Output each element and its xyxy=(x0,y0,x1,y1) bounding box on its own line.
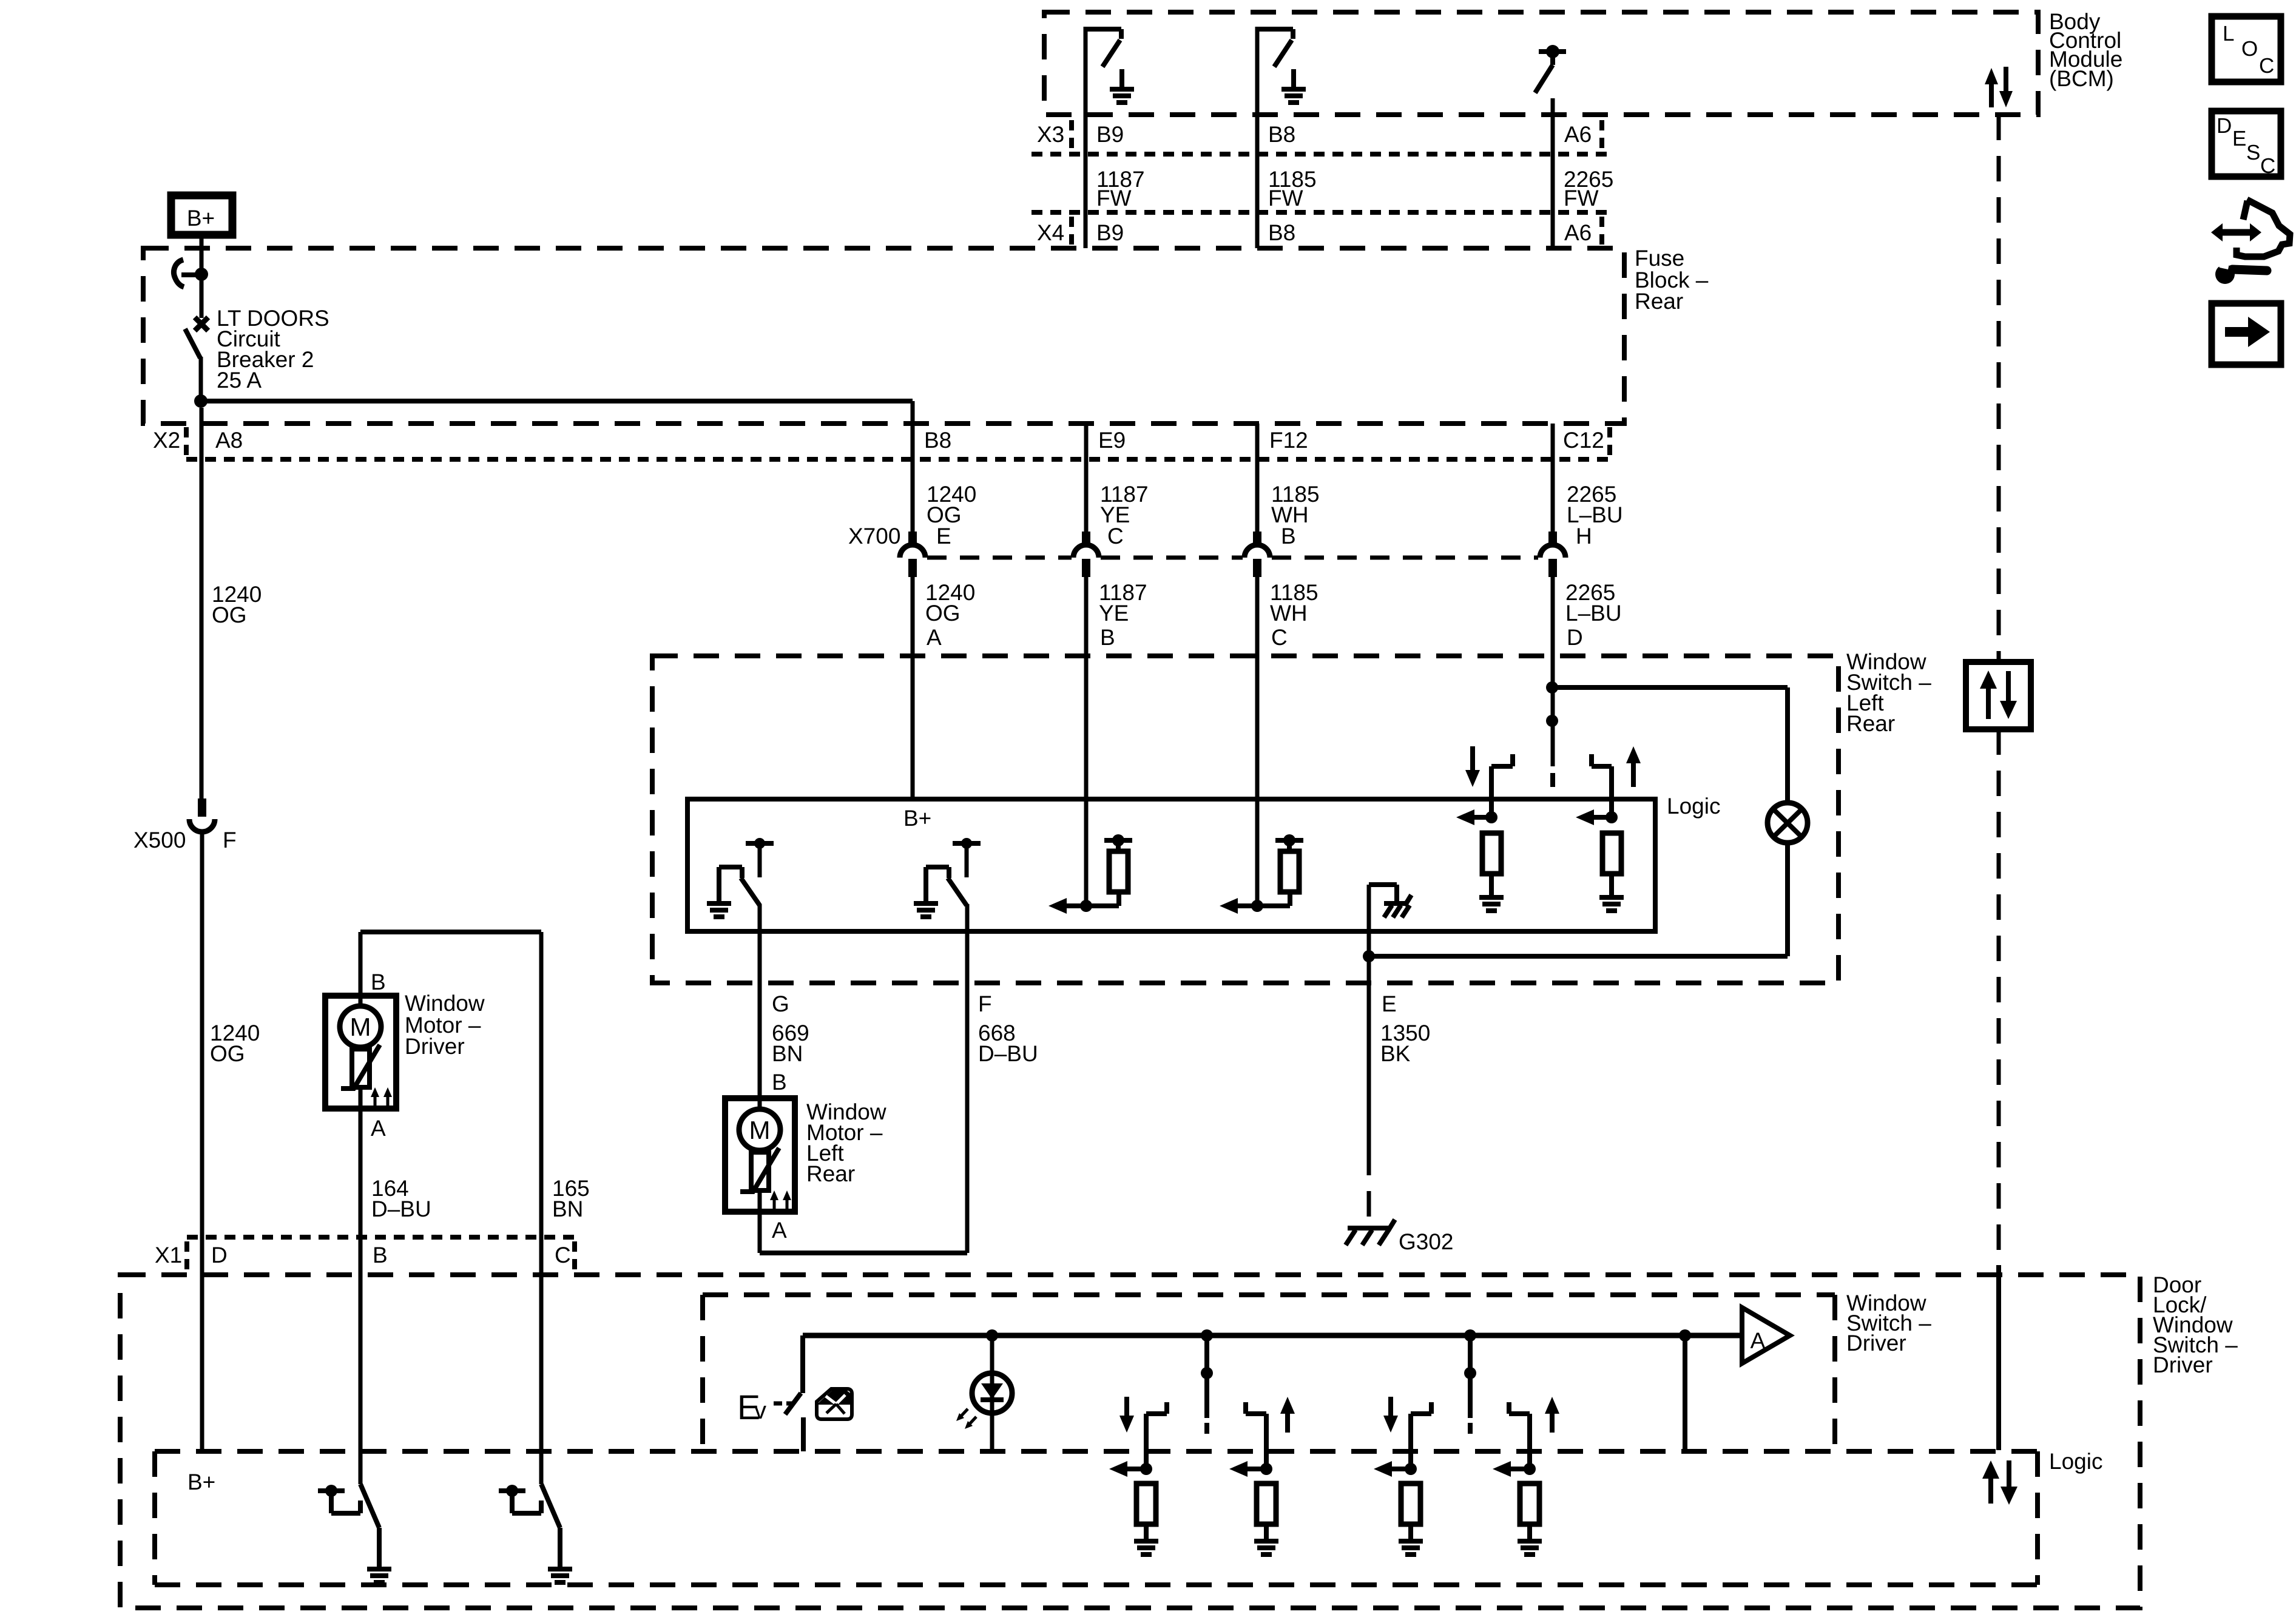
svg-text:X3: X3 xyxy=(1037,122,1064,147)
svg-text:Driver: Driver xyxy=(405,1034,465,1059)
svg-text:C12: C12 xyxy=(1563,428,1604,453)
svg-text:X1: X1 xyxy=(155,1243,182,1268)
svg-text:FW: FW xyxy=(1096,186,1132,211)
svg-text:B+: B+ xyxy=(903,806,931,831)
svg-text:FW: FW xyxy=(1564,186,1599,211)
svg-text:WH: WH xyxy=(1270,601,1308,626)
svg-text:A: A xyxy=(772,1218,787,1243)
svg-text:A: A xyxy=(927,625,942,650)
svg-text:Driver: Driver xyxy=(2153,1352,2213,1377)
svg-text:G: G xyxy=(772,991,789,1016)
svg-text:OG: OG xyxy=(210,1041,245,1066)
svg-text:A8: A8 xyxy=(215,428,243,453)
svg-text:B9: B9 xyxy=(1096,220,1124,245)
svg-text:OG: OG xyxy=(212,603,247,627)
svg-text:S: S xyxy=(2246,141,2260,164)
svg-text:FW: FW xyxy=(1268,186,1303,211)
svg-text:B8: B8 xyxy=(1268,220,1295,245)
svg-text:Rear: Rear xyxy=(1635,289,1683,314)
svg-text:B8: B8 xyxy=(924,428,951,453)
svg-text:E: E xyxy=(2232,127,2246,150)
svg-text:D–BU: D–BU xyxy=(978,1041,1038,1066)
svg-text:Rear: Rear xyxy=(806,1161,855,1186)
svg-text:Logic: Logic xyxy=(1667,794,1720,819)
svg-text:B9: B9 xyxy=(1096,122,1124,147)
svg-text:v: v xyxy=(754,1397,766,1424)
svg-text:OG: OG xyxy=(925,601,961,626)
svg-text:E: E xyxy=(1382,991,1397,1016)
svg-text:Window: Window xyxy=(405,991,485,1016)
svg-text:B: B xyxy=(371,970,386,994)
svg-text:E9: E9 xyxy=(1098,428,1126,453)
svg-text:(BCM): (BCM) xyxy=(2049,66,2114,91)
svg-text:A6: A6 xyxy=(1564,122,1592,147)
svg-text:F12: F12 xyxy=(1269,428,1308,453)
svg-text:A: A xyxy=(371,1116,386,1141)
svg-text:C: C xyxy=(2259,54,2274,78)
svg-text:25 A: 25 A xyxy=(217,368,262,393)
svg-text:C: C xyxy=(1107,524,1124,549)
svg-text:D–BU: D–BU xyxy=(371,1197,431,1221)
svg-text:M: M xyxy=(749,1116,771,1144)
svg-text:X4: X4 xyxy=(1037,220,1064,245)
svg-text:B+: B+ xyxy=(187,206,215,231)
svg-text:A: A xyxy=(1751,1328,1766,1353)
svg-text:M: M xyxy=(350,1013,371,1041)
svg-text:B: B xyxy=(772,1070,787,1095)
svg-text:Driver: Driver xyxy=(1846,1331,1906,1355)
svg-text:C: C xyxy=(2260,154,2275,178)
svg-text:H: H xyxy=(1576,524,1592,549)
svg-text:L–BU: L–BU xyxy=(1567,502,1623,527)
svg-text:B8: B8 xyxy=(1268,122,1295,147)
svg-text:O: O xyxy=(2241,37,2258,61)
svg-text:F: F xyxy=(223,828,237,852)
svg-text:A6: A6 xyxy=(1564,220,1592,245)
svg-text:BN: BN xyxy=(772,1041,803,1066)
svg-text:X2: X2 xyxy=(153,428,180,453)
svg-text:C: C xyxy=(555,1243,571,1268)
svg-text:BK: BK xyxy=(1380,1041,1411,1066)
svg-text:B+: B+ xyxy=(187,1470,215,1494)
svg-text:D: D xyxy=(1567,625,1583,650)
svg-text:Fuse: Fuse xyxy=(1635,246,1684,271)
svg-text:D: D xyxy=(211,1243,228,1268)
svg-text:D: D xyxy=(2217,114,2232,138)
svg-text:L: L xyxy=(2223,22,2234,46)
svg-text:E: E xyxy=(936,524,951,549)
svg-text:Rear: Rear xyxy=(1846,711,1895,736)
svg-text:YE: YE xyxy=(1099,601,1129,626)
svg-text:Logic: Logic xyxy=(2049,1449,2102,1474)
svg-text:B: B xyxy=(1100,625,1115,650)
svg-text:X700: X700 xyxy=(848,524,900,549)
svg-text:C: C xyxy=(1271,625,1288,650)
svg-text:L–BU: L–BU xyxy=(1565,601,1622,626)
svg-text:B: B xyxy=(1281,524,1296,549)
svg-text:B: B xyxy=(373,1243,388,1268)
svg-text:BN: BN xyxy=(552,1197,583,1221)
svg-text:G302: G302 xyxy=(1399,1229,1454,1254)
svg-text:X500: X500 xyxy=(133,828,186,852)
svg-text:F: F xyxy=(978,991,992,1016)
